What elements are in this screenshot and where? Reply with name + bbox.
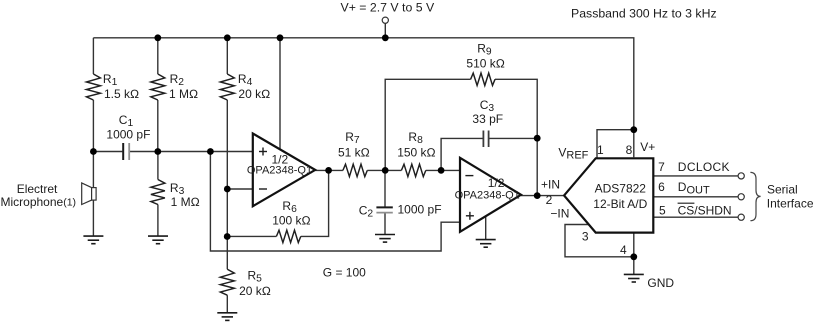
svg-text:OPA2348-Q1: OPA2348-Q1: [455, 190, 520, 202]
svg-text:20 kΩ: 20 kΩ: [238, 87, 270, 101]
svg-text:2: 2: [546, 193, 553, 207]
svg-text:150 kΩ: 150 kΩ: [397, 145, 436, 159]
svg-text:1/2: 1/2: [488, 176, 505, 190]
svg-text:510 kΩ: 510 kΩ: [466, 57, 505, 71]
svg-text:1 MΩ: 1 MΩ: [171, 195, 200, 209]
svg-text:8: 8: [626, 143, 633, 157]
svg-text:V+: V+: [640, 140, 655, 154]
svg-text:1000 pF: 1000 pF: [106, 128, 150, 142]
svg-text:Electret: Electret: [17, 182, 58, 196]
svg-text:ADS7822: ADS7822: [595, 182, 647, 196]
svg-text:6: 6: [658, 180, 665, 194]
svg-text:12-Bit A/D: 12-Bit A/D: [593, 197, 647, 211]
svg-text:CS/SHDN: CS/SHDN: [678, 203, 732, 217]
svg-text:51 kΩ: 51 kΩ: [338, 145, 370, 159]
svg-text:5: 5: [659, 203, 666, 217]
svg-text:DCLOCK: DCLOCK: [678, 160, 730, 174]
svg-text:20 kΩ: 20 kΩ: [239, 284, 271, 298]
svg-text:+IN: +IN: [541, 177, 560, 191]
svg-text:4: 4: [620, 243, 627, 257]
svg-text:3: 3: [582, 230, 589, 244]
svg-text:−IN: −IN: [550, 207, 569, 221]
svg-text:33 pF: 33 pF: [472, 112, 503, 126]
svg-text:Passband 300 Hz to 3 kHz: Passband 300 Hz to 3 kHz: [571, 7, 717, 21]
svg-text:Serial: Serial: [767, 183, 798, 197]
svg-text:7: 7: [658, 160, 665, 174]
svg-text:OPA2348-Q1: OPA2348-Q1: [247, 164, 312, 176]
svg-text:1.5 kΩ: 1.5 kΩ: [104, 87, 139, 101]
svg-text:V+ = 2.7 V to 5 V: V+ = 2.7 V to 5 V: [341, 1, 435, 15]
svg-text:GND: GND: [647, 276, 674, 290]
svg-text:1000 pF: 1000 pF: [398, 203, 442, 217]
svg-text:1: 1: [597, 143, 604, 157]
svg-text:Microphone(1): Microphone(1): [1, 195, 77, 209]
svg-text:G = 100: G = 100: [323, 265, 366, 279]
svg-text:100 kΩ: 100 kΩ: [272, 214, 311, 228]
svg-text:1 MΩ: 1 MΩ: [169, 87, 198, 101]
svg-text:Interface: Interface: [767, 197, 813, 211]
